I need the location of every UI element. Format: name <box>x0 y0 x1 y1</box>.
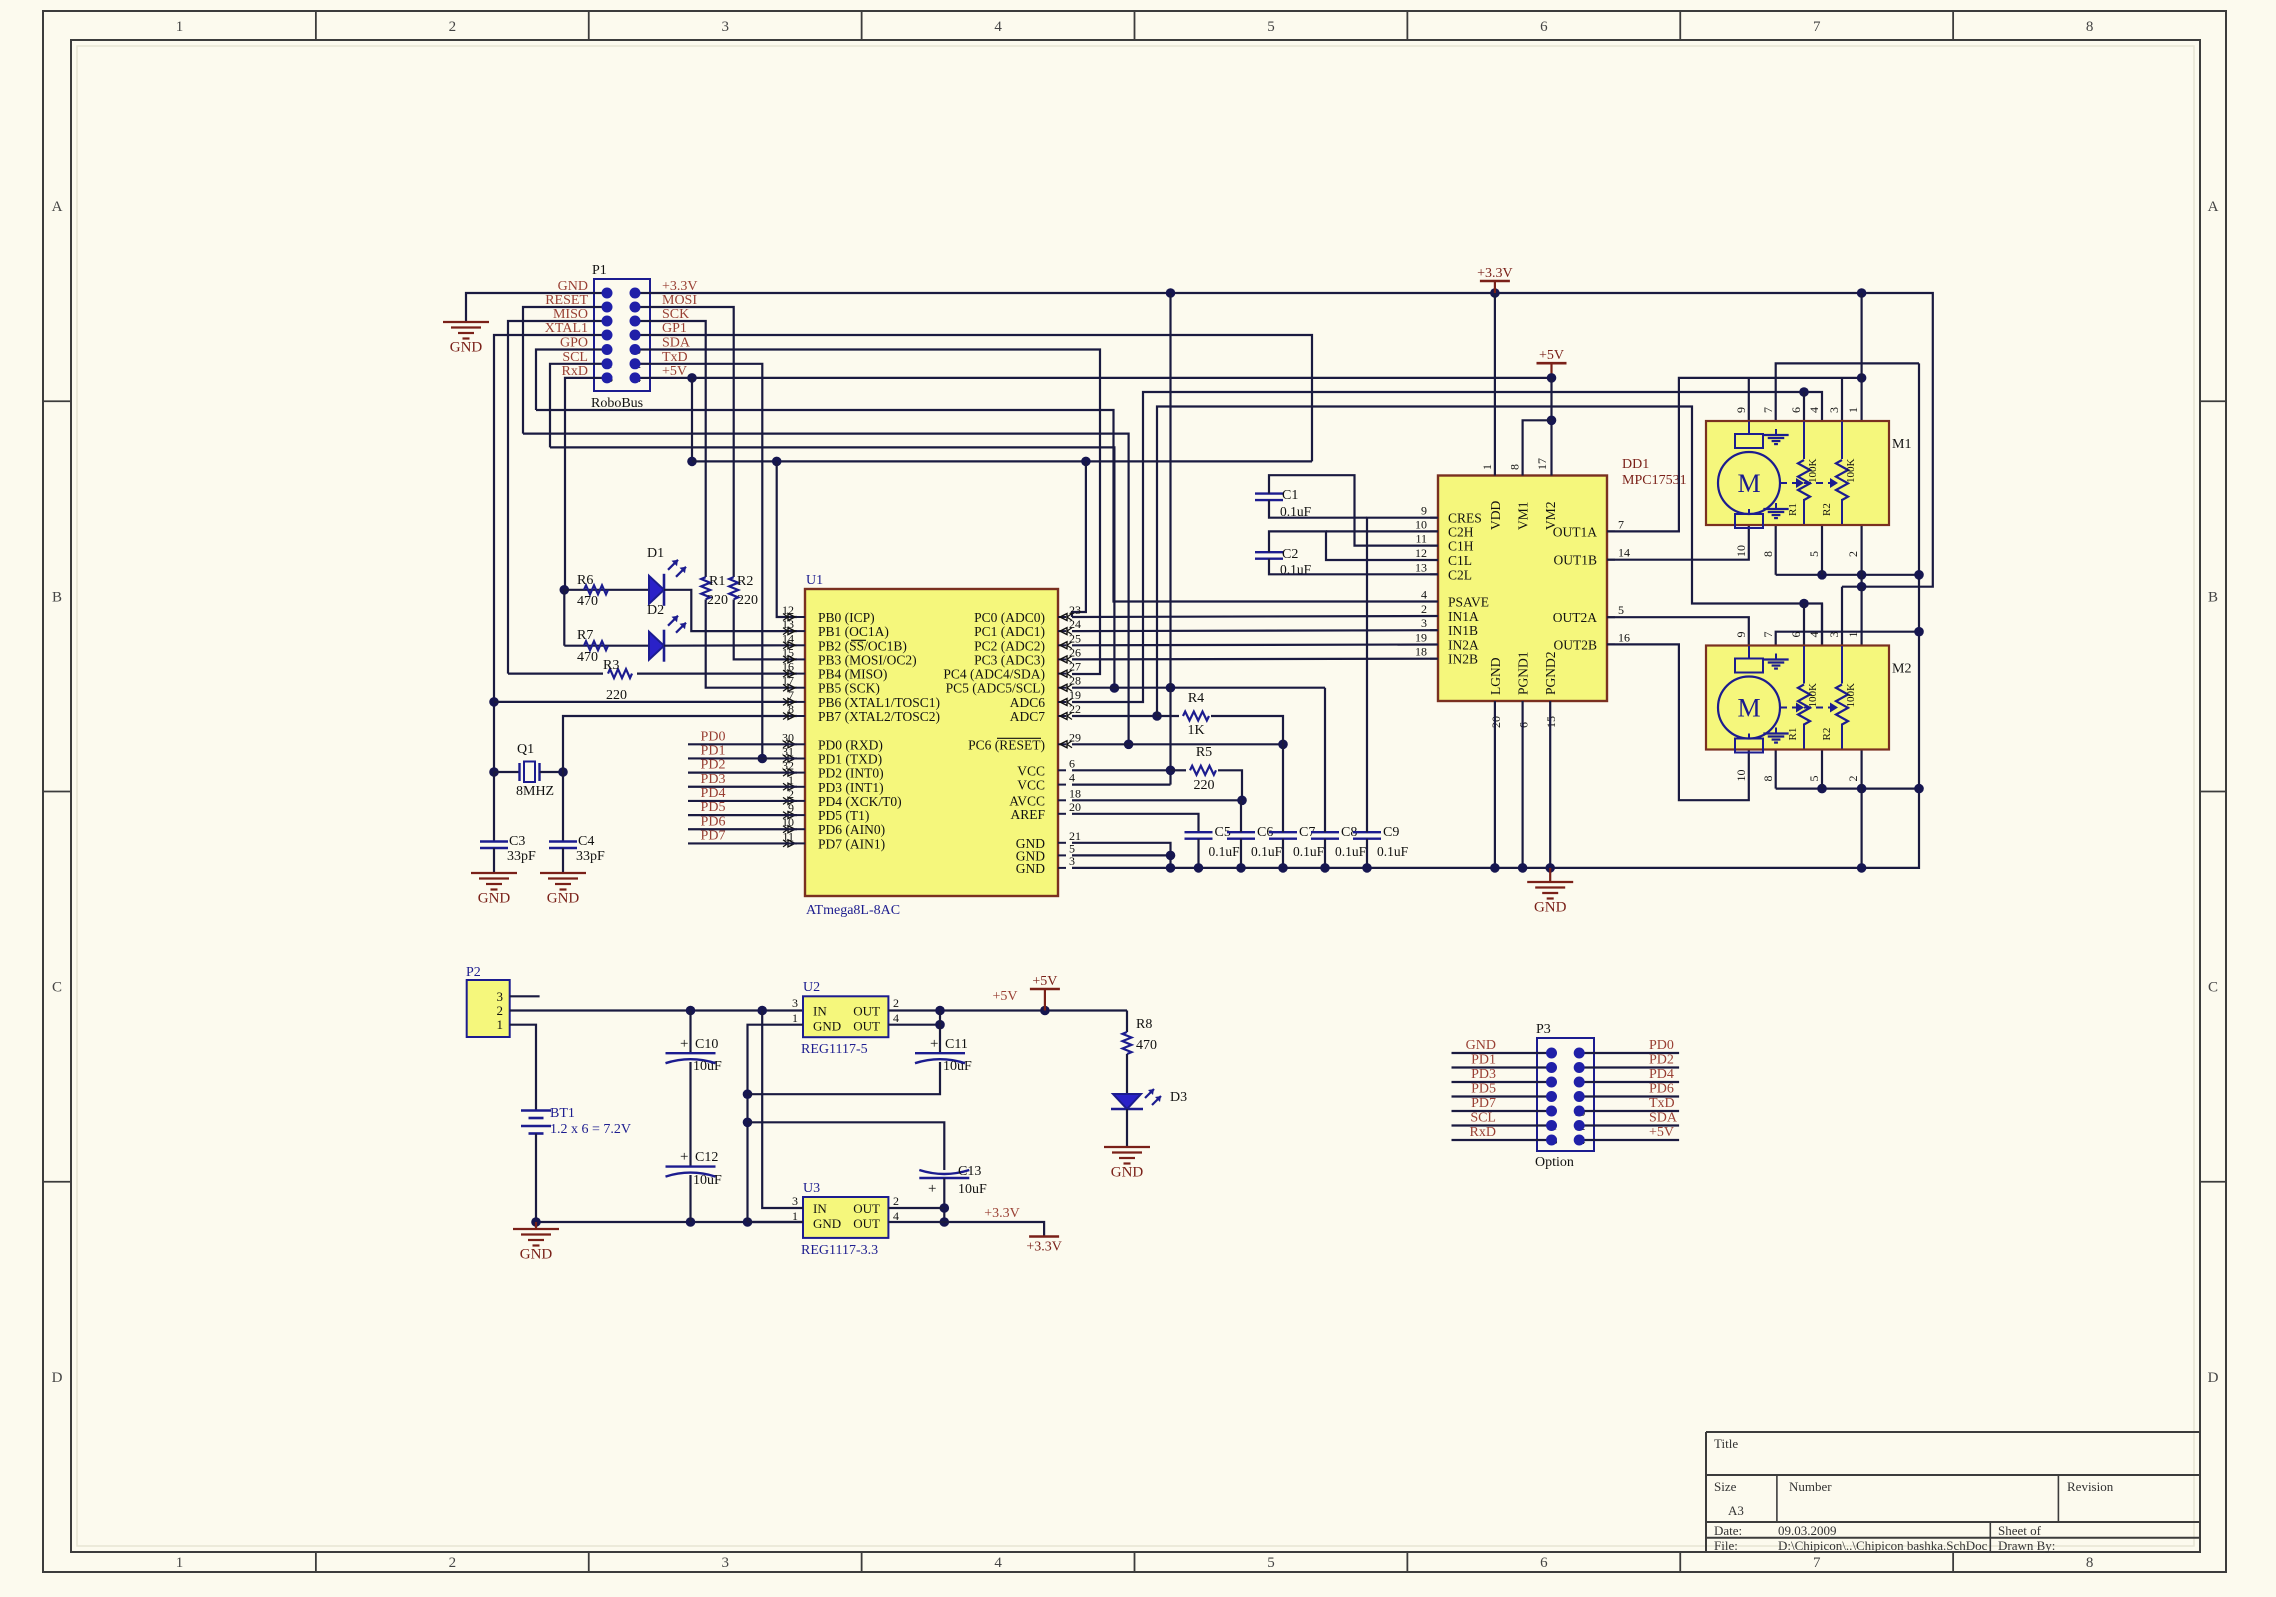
U1 pin 16 PB4 <box>797 673 805 675</box>
ground symbol GND (D3) <box>1104 1146 1150 1148</box>
DD1 pin 14 OUT1B (right) <box>1607 559 1615 561</box>
svg-text:PGND1: PGND1 <box>1516 651 1531 695</box>
wire PD1 stub + net label PD1 <box>688 757 797 759</box>
P1 pin 1 dot <box>602 288 613 299</box>
svg-text:C13: C13 <box>958 1164 981 1179</box>
wire OUT2A to M2 pin9 <box>1607 617 1749 645</box>
svg-text:RxD: RxD <box>562 364 588 379</box>
wire ADC7 riser <box>1157 407 1822 717</box>
svg-text:R8: R8 <box>1136 1017 1152 1032</box>
svg-text:C10: C10 <box>695 1037 718 1052</box>
svg-text:4: 4 <box>1807 407 1821 413</box>
svg-text:Q1: Q1 <box>517 742 534 757</box>
svg-text:1: 1 <box>792 1011 798 1025</box>
wire P1 GND to ground <box>466 293 594 322</box>
svg-text:PD0: PD0 <box>1649 1038 1674 1053</box>
junction M1 gnd link a <box>1817 570 1827 580</box>
U1 PC6 RESET overline <box>997 737 1041 739</box>
svg-text:2: 2 <box>497 1003 504 1018</box>
capacitor C6 <box>1227 831 1255 833</box>
wire PGND2 stub <box>1549 701 1551 868</box>
P1 pin 10 dot <box>630 344 641 355</box>
junction C11/out2 <box>935 1020 945 1030</box>
U1 pin 27 PC4 (right) <box>1058 673 1066 675</box>
capacitor C11 (electrolytic) <box>915 1052 965 1054</box>
wire P1 pin 9 inside <box>594 348 607 350</box>
U1 pin 9 PD5 <box>797 814 805 816</box>
wire P1 pin 7 inside <box>594 334 607 336</box>
svg-text:+5V: +5V <box>992 989 1017 1004</box>
wire MOSI rail to R2 <box>650 307 734 577</box>
P1 pin 9 dot <box>602 344 613 355</box>
svg-text:C1: C1 <box>1282 488 1298 503</box>
capacitor C8 <box>1311 831 1339 833</box>
wire VCC row a <box>1072 769 1171 771</box>
svg-text:3: 3 <box>721 19 729 35</box>
svg-text:C: C <box>52 980 62 996</box>
svg-text:AREF: AREF <box>1010 807 1045 822</box>
svg-text:0.1uF: 0.1uF <box>1377 844 1409 859</box>
svg-text:6: 6 <box>1540 1555 1548 1571</box>
junction crystal/PB7 <box>558 767 568 777</box>
svg-text:GND: GND <box>520 1247 553 1263</box>
junction AVCC/C6 <box>1237 796 1247 806</box>
wire P1 pin 13 inside <box>594 377 607 379</box>
svg-text:+5V: +5V <box>1032 974 1057 989</box>
wire R4 to PC6 row <box>1211 716 1283 744</box>
U1 pin 17 PB5 <box>797 687 805 689</box>
battery BT1 <box>521 1109 551 1112</box>
svg-text:4: 4 <box>994 19 1002 35</box>
svg-text:OUT: OUT <box>853 1004 880 1019</box>
junction bus/GND drop <box>1166 863 1176 873</box>
potentiometer R1 (M1) <box>1798 460 1810 500</box>
wire P3 left row PD1 <box>1452 1066 1552 1068</box>
svg-text:RxD: RxD <box>1470 1125 1496 1140</box>
svg-text:Drawn By:: Drawn By: <box>1998 1538 2055 1553</box>
IC U1 ATmega8L-8AC body <box>805 589 1058 896</box>
svg-text:16: 16 <box>1618 630 1630 644</box>
svg-text:M: M <box>1737 469 1760 498</box>
svg-text:C11: C11 <box>945 1037 968 1052</box>
wire OUT2B to M2 pin10 <box>1607 644 1749 800</box>
potentiometer R2 (M2) <box>1836 685 1848 725</box>
svg-text:PD5: PD5 <box>1471 1082 1496 1097</box>
junction PB6 tap <box>489 697 499 707</box>
wire VM2 stub <box>1550 378 1552 476</box>
junction SCL/PC5 <box>1110 683 1120 693</box>
svg-text:+3.3V: +3.3V <box>662 279 698 294</box>
svg-text:GND: GND <box>1534 900 1567 916</box>
junction C11/out1 <box>935 1006 945 1016</box>
svg-text:2: 2 <box>893 996 899 1010</box>
wire M2 pin8 stub <box>1775 750 1777 789</box>
svg-text:2: 2 <box>788 787 794 801</box>
junction GND rows <box>1166 851 1176 861</box>
svg-text:11: 11 <box>1415 532 1427 546</box>
junction M2 pin7/GND riser <box>1914 627 1924 637</box>
junction M1 gnd link b <box>1857 570 1867 580</box>
svg-text:470: 470 <box>577 650 598 665</box>
junction +3.3V M2 line <box>1857 582 1867 592</box>
junction PB0 hook <box>772 457 782 467</box>
wire MISO from P1 pin5 <box>508 321 594 674</box>
junction U2gnd/C13 <box>743 1118 753 1128</box>
motor M2 body <box>1706 646 1889 750</box>
svg-text:24: 24 <box>1069 617 1081 631</box>
svg-text:5: 5 <box>1807 551 1821 557</box>
svg-text:220: 220 <box>1194 778 1215 793</box>
junction ADC7/M2 pin6 <box>1799 599 1809 609</box>
svg-text:VDD: VDD <box>1488 501 1503 530</box>
DD1 pin 9 CRES <box>1430 517 1438 519</box>
wire U2 OUT +5V <box>888 1009 1127 1011</box>
wire M2 pin7 stub to GND riser <box>1776 632 1919 645</box>
svg-text:GND: GND <box>1466 1038 1496 1053</box>
svg-text:D2: D2 <box>647 603 664 618</box>
svg-text:+5V: +5V <box>1539 348 1564 363</box>
U1 pin 2 PD4 <box>797 800 805 802</box>
U1 pin 12 PB0 <box>797 616 805 618</box>
wire +5V to R8 <box>1126 1011 1128 1033</box>
svg-text:U3: U3 <box>803 1181 820 1196</box>
svg-text:SDA: SDA <box>1649 1111 1678 1126</box>
U1 pin 30 PD0 <box>797 743 805 745</box>
wire GP1 rail <box>650 335 1312 461</box>
svg-text:PD1: PD1 <box>701 743 726 758</box>
wire U3 OUT rows <box>888 1207 944 1209</box>
P3 pin 13 dot <box>1546 1135 1557 1146</box>
svg-text:4: 4 <box>1421 588 1427 602</box>
capacitor C9 <box>1353 831 1381 833</box>
junction M2 gnd b <box>1857 784 1867 794</box>
wire GPO rail to PSAVE <box>536 410 1438 602</box>
wire D1 cathode to PB1 <box>664 590 797 631</box>
wire P1 pin 1 inside <box>594 292 607 294</box>
wire PC0/IN1A row <box>1072 616 1438 617</box>
wire M2 pin2 to GND bus <box>1860 789 1862 868</box>
wire M2 pin3 stub <box>1841 587 1843 645</box>
svg-text:1: 1 <box>788 773 794 787</box>
svg-text:OUT: OUT <box>853 1019 880 1034</box>
svg-text:SDA: SDA <box>662 336 691 351</box>
svg-text:R6: R6 <box>577 573 593 588</box>
svg-text:D3: D3 <box>1170 1090 1187 1105</box>
svg-text:1: 1 <box>1480 464 1494 470</box>
motor M2 brush bottom <box>1735 739 1763 753</box>
U1 pin 6 VCC (right) <box>1058 769 1066 771</box>
motor M2 shaft dashed link <box>1780 707 1834 709</box>
svg-text:220: 220 <box>606 688 627 703</box>
svg-text:A: A <box>52 199 63 215</box>
P1 pin 14 dot <box>630 372 641 383</box>
wire crystal right <box>540 771 564 773</box>
svg-text:OUT: OUT <box>853 1201 880 1216</box>
svg-text:2: 2 <box>449 19 457 35</box>
svg-text:6: 6 <box>1789 632 1803 638</box>
svg-text:VCC: VCC <box>1017 778 1045 793</box>
svg-text:R1: R1 <box>709 574 725 589</box>
junction bus/M2 <box>1857 863 1867 873</box>
svg-text:+5V: +5V <box>1649 1125 1674 1140</box>
svg-text:PC0 (ADC0): PC0 (ADC0) <box>974 610 1045 625</box>
wire P2 pin3 stub <box>510 995 540 997</box>
wire R2 to PB3 <box>734 600 797 660</box>
wire D2 cathode to PB2 <box>664 644 797 647</box>
wire P1 pin 14 inside <box>635 377 650 379</box>
svg-text:7: 7 <box>1761 632 1775 638</box>
svg-text:PSAVE: PSAVE <box>1448 595 1489 610</box>
wire M2 pin2 stub <box>1860 750 1862 789</box>
ground symbol GND (power) <box>535 1222 537 1229</box>
wire C2 top to C1L <box>1269 531 1438 560</box>
svg-text:IN2B: IN2B <box>1448 652 1478 667</box>
wire VCC row b <box>1072 783 1171 785</box>
wire C1 bottom to CRES <box>1269 500 1367 518</box>
svg-text:R3: R3 <box>603 658 619 673</box>
wire PC3/IN2B row <box>1072 658 1438 661</box>
U1 pin 26 PC3 (right) <box>1058 658 1066 660</box>
junction TxD/PD1 <box>758 754 768 764</box>
junction PC5/+3.3V drop <box>1166 683 1176 693</box>
svg-text:PD4 (XCK/T0): PD4 (XCK/T0) <box>818 794 902 809</box>
svg-text:2: 2 <box>1846 551 1860 557</box>
P1 pin 3 dot <box>602 302 613 313</box>
junction LED feed <box>560 585 570 595</box>
svg-text:PD2: PD2 <box>701 758 726 773</box>
P3 pin 12 dot <box>1574 1120 1585 1131</box>
junction XTAL1/crystal <box>489 767 499 777</box>
svg-text:MISO: MISO <box>553 307 588 322</box>
wire PB0 hook <box>777 461 797 617</box>
svg-text:PC1 (ADC1): PC1 (ADC1) <box>974 624 1045 639</box>
svg-text:+3.3V: +3.3V <box>984 1206 1020 1221</box>
U1 pin 10 PD6 <box>797 828 805 830</box>
svg-text:100K: 100K <box>1845 683 1857 708</box>
svg-text:12: 12 <box>782 603 794 617</box>
svg-text:9: 9 <box>788 801 794 815</box>
svg-text:13: 13 <box>1415 560 1427 574</box>
junction PC0 drop <box>1081 457 1091 467</box>
wire +3.3V drop to VCC <box>1169 293 1171 785</box>
svg-text:GND: GND <box>813 1019 841 1034</box>
svg-text:10uF: 10uF <box>693 1173 722 1188</box>
svg-text:PD0: PD0 <box>701 729 726 744</box>
frame column tick 6 <box>1679 11 1681 40</box>
svg-text:1: 1 <box>1846 407 1860 413</box>
wire crystal right down to C4 <box>562 772 564 842</box>
capacitor C7 <box>1269 831 1297 833</box>
U1 pin 22 ADC7 (right) <box>1058 715 1066 717</box>
power port +5V (DD1) <box>1550 363 1552 378</box>
svg-text:17: 17 <box>782 674 794 688</box>
svg-text:2: 2 <box>1846 776 1860 782</box>
capacitor C3 <box>480 840 508 842</box>
frame row tick B/C <box>43 791 71 793</box>
DD1 pin 18 IN2B <box>1430 658 1438 660</box>
resistor R3 <box>608 669 632 678</box>
junction +5V/L3 <box>687 457 697 467</box>
motor M1 wire to brushes <box>1748 422 1750 435</box>
wire +3.3V drop M1 <box>1860 293 1862 378</box>
wire PD7 stub + net label PD7 <box>688 842 797 844</box>
wire R7 row <box>564 645 649 647</box>
svg-text:PC2 (ADC2): PC2 (ADC2) <box>974 638 1045 653</box>
svg-text:RESET: RESET <box>545 293 588 308</box>
svg-text:4: 4 <box>1807 632 1821 638</box>
wire PC1/IN1B row <box>1072 629 1438 632</box>
wire power GND bus <box>536 1221 803 1223</box>
wire R5 to AVCC row <box>1218 770 1242 800</box>
wire M2 pin5 stub <box>1821 750 1823 789</box>
svg-text:TxD: TxD <box>1649 1096 1675 1111</box>
wire C13 top link <box>748 1122 945 1170</box>
regulator U2 body <box>803 996 888 1037</box>
svg-text:8: 8 <box>788 702 794 716</box>
svg-text:10uF: 10uF <box>693 1059 722 1074</box>
motor M1 brush bottom <box>1735 514 1763 528</box>
svg-text:100K: 100K <box>1807 459 1819 484</box>
wire XTAL1 down to C3 <box>493 772 495 842</box>
wire M1 bottom GND link <box>1776 574 1919 576</box>
U1 pin 31 PD1 <box>797 758 805 760</box>
P3 pin 11 dot <box>1546 1120 1557 1131</box>
motor M2 brush top <box>1735 659 1763 673</box>
svg-text:A3: A3 <box>1728 1503 1744 1518</box>
svg-text:C2L: C2L <box>1448 567 1472 582</box>
wire TxD rail to PD1 <box>650 364 762 759</box>
wire M2 pin4 stub <box>1821 604 1823 646</box>
wire P3 right row PD2 <box>1579 1066 1679 1068</box>
svg-text:2: 2 <box>893 1194 899 1208</box>
svg-text:PB4 (MISO): PB4 (MISO) <box>818 667 887 682</box>
wire C6 riser <box>1240 800 1242 832</box>
wire U3 IN feed <box>762 1011 803 1209</box>
wire D3 cathode to ground <box>1126 1109 1128 1147</box>
wire R8 to D3 <box>1126 1054 1128 1094</box>
DD1 pin 16 OUT2B (right) <box>1607 643 1615 645</box>
svg-text:5: 5 <box>1267 1555 1275 1571</box>
junction U3 feed <box>757 1006 767 1016</box>
wire C3 to ground <box>493 848 495 873</box>
DD1 pin 10 C2H <box>1430 530 1438 532</box>
svg-text:File:: File: <box>1714 1538 1738 1553</box>
svg-text:20: 20 <box>1069 800 1081 814</box>
svg-text:MOSI: MOSI <box>662 293 697 308</box>
svg-text:+5V: +5V <box>662 364 687 379</box>
svg-text:1: 1 <box>176 19 184 35</box>
resistor R4 <box>1157 715 1179 717</box>
svg-text:PC4 (ADC4/SDA): PC4 (ADC4/SDA) <box>943 667 1045 682</box>
svg-text:6: 6 <box>1069 756 1075 770</box>
svg-text:0.1uF: 0.1uF <box>1335 844 1367 859</box>
svg-text:33pF: 33pF <box>507 849 536 864</box>
svg-text:R2: R2 <box>737 574 753 589</box>
svg-text:R2: R2 <box>1821 728 1833 741</box>
svg-text:M2: M2 <box>1892 662 1911 677</box>
svg-text:IN2A: IN2A <box>1448 638 1479 653</box>
svg-text:2: 2 <box>449 1555 457 1571</box>
svg-text:OUT1A: OUT1A <box>1553 524 1597 539</box>
P3 pin 7 dot <box>1546 1091 1557 1102</box>
svg-text:0.1uF: 0.1uF <box>1293 844 1325 859</box>
svg-text:PD1: PD1 <box>1471 1053 1496 1068</box>
svg-text:IN: IN <box>813 1201 827 1216</box>
wire M2 pin1 stub <box>1860 587 1862 645</box>
wire VM1 stub <box>1523 420 1552 475</box>
svg-text:Option: Option <box>1535 1155 1574 1170</box>
svg-text:PD6: PD6 <box>1649 1082 1674 1097</box>
svg-text:IN: IN <box>813 1004 827 1019</box>
junction M2 gnd a <box>1817 784 1827 794</box>
ground symbol GND (DD1) <box>1549 868 1551 882</box>
svg-text:TxD: TxD <box>662 350 688 365</box>
wire PD0 stub + net label PD0 <box>688 743 797 745</box>
svg-text:R1: R1 <box>1787 728 1799 741</box>
motor M1 body <box>1706 421 1889 525</box>
wire M1 pin2 stub <box>1860 524 1862 575</box>
wire ADC6 rail <box>1072 392 1822 702</box>
P1 pin 11 dot <box>602 358 613 369</box>
svg-text:PD2 (INT0): PD2 (INT0) <box>818 766 884 781</box>
svg-text:+3.3V: +3.3V <box>1026 1240 1062 1255</box>
wire +3.3V out <box>944 1222 1044 1237</box>
svg-text:4: 4 <box>1069 771 1075 785</box>
svg-text:7: 7 <box>1813 1555 1821 1571</box>
svg-text:9: 9 <box>1734 407 1748 413</box>
wire PC0 drop <box>1072 461 1086 617</box>
wire P3 right row +5V <box>1579 1139 1679 1141</box>
svg-text:1: 1 <box>176 1555 184 1571</box>
P1 pin 4 dot <box>630 302 641 313</box>
svg-text:PB7 (XTAL2/TOSC2): PB7 (XTAL2/TOSC2) <box>818 709 940 724</box>
svg-text:PB6 (XTAL1/TOSC1): PB6 (XTAL1/TOSC1) <box>818 695 940 710</box>
svg-text:1: 1 <box>1846 632 1860 638</box>
svg-text:10uF: 10uF <box>943 1059 972 1074</box>
motor M2 rotor circle <box>1718 677 1780 739</box>
wire C8 riser <box>1324 688 1326 833</box>
ground symbol GND (C4) <box>540 872 586 874</box>
svg-text:13: 13 <box>782 617 794 631</box>
svg-text:Date:: Date: <box>1714 1523 1742 1538</box>
svg-text:RoboBus: RoboBus <box>591 396 643 411</box>
svg-text:C2: C2 <box>1282 547 1298 562</box>
ground symbol (inside M2 top) <box>1775 654 1777 660</box>
wire C13 bottom to OUT rows <box>943 1178 945 1222</box>
wire SCK rail to R1 <box>650 321 706 577</box>
frame column tick 7 <box>1952 11 1954 40</box>
wire R6 row <box>564 589 649 591</box>
wire P1 pin 4 inside <box>635 306 650 308</box>
ground symbol (inside M1 bottom) <box>1775 503 1777 509</box>
wire M1 pin1 stub <box>1860 378 1862 421</box>
svg-text:C3: C3 <box>509 834 525 849</box>
svg-text:R5: R5 <box>1196 745 1212 760</box>
svg-text:GND: GND <box>1016 861 1045 876</box>
svg-text:4: 4 <box>893 1011 899 1025</box>
svg-text:28: 28 <box>1069 674 1081 688</box>
junction +3.3V/VDD <box>1490 288 1500 298</box>
svg-text:P3: P3 <box>1536 1022 1551 1037</box>
svg-text:OUT1B: OUT1B <box>1554 553 1598 568</box>
svg-text:23: 23 <box>1069 603 1081 617</box>
svg-text:32: 32 <box>782 759 794 773</box>
svg-text:470: 470 <box>1136 1038 1157 1053</box>
DD1 pin 7 OUT1A (right) <box>1607 530 1615 532</box>
svg-text:31: 31 <box>782 745 794 759</box>
wire C12 bottom to bus <box>689 1175 691 1222</box>
svg-text:30: 30 <box>782 730 794 744</box>
